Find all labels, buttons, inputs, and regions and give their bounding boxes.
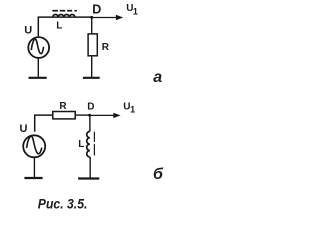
inductor L1 coil humps — [53, 14, 75, 17]
svg-text:1: 1 — [130, 104, 135, 114]
svg-text:R: R — [59, 101, 67, 112]
node D junction dot (circuit b) — [88, 114, 91, 117]
wire from source up and right to resistor — [35, 115, 53, 132]
ground (circuit a, left) — [29, 77, 47, 79]
AC source U (circuit a) — [28, 37, 49, 58]
wire resistor to node D (circuit b) — [75, 114, 89, 116]
ground (circuit b, left) — [24, 177, 42, 179]
node D junction dot (circuit a) — [90, 16, 93, 19]
svg-text:a: a — [153, 69, 162, 86]
svg-text:U: U — [24, 24, 32, 36]
wire top horizontal from source to node D — [38, 17, 91, 36]
svg-text:R: R — [102, 42, 110, 53]
svg-text:U: U — [20, 123, 28, 135]
wire resistor to ground — [91, 56, 93, 78]
ground (circuit b, right) — [78, 177, 99, 179]
resistor R1 (circuit a) — [88, 34, 97, 56]
output arrow to U1 (circuit a) — [92, 15, 124, 20]
inductor L2 (circuit b, vertical) — [87, 131, 90, 157]
svg-text:D: D — [87, 101, 94, 112]
inductor core dashed line — [52, 10, 77, 12]
svg-text:1: 1 — [133, 6, 138, 16]
svg-text:L: L — [56, 21, 62, 32]
wire source to ground (circuit b) — [33, 158, 35, 178]
svg-text:б: б — [153, 166, 164, 183]
wire inductor to ground — [89, 157, 91, 178]
output arrow to U1 (circuit b) — [90, 113, 121, 118]
svg-text:D: D — [92, 2, 101, 16]
inductor core line (circuit b) — [93, 132, 95, 156]
ground (circuit a, right) — [83, 77, 100, 79]
wire source to ground — [37, 58, 39, 78]
svg-text:Рис. 3.5.: Рис. 3.5. — [38, 197, 88, 212]
wire node D down to inductor — [89, 115, 91, 131]
wire node D down to resistor — [91, 17, 93, 34]
resistor R2 (circuit b, horizontal) — [53, 112, 75, 119]
svg-text:L: L — [78, 139, 84, 150]
AC source U (circuit b) — [23, 135, 45, 157]
